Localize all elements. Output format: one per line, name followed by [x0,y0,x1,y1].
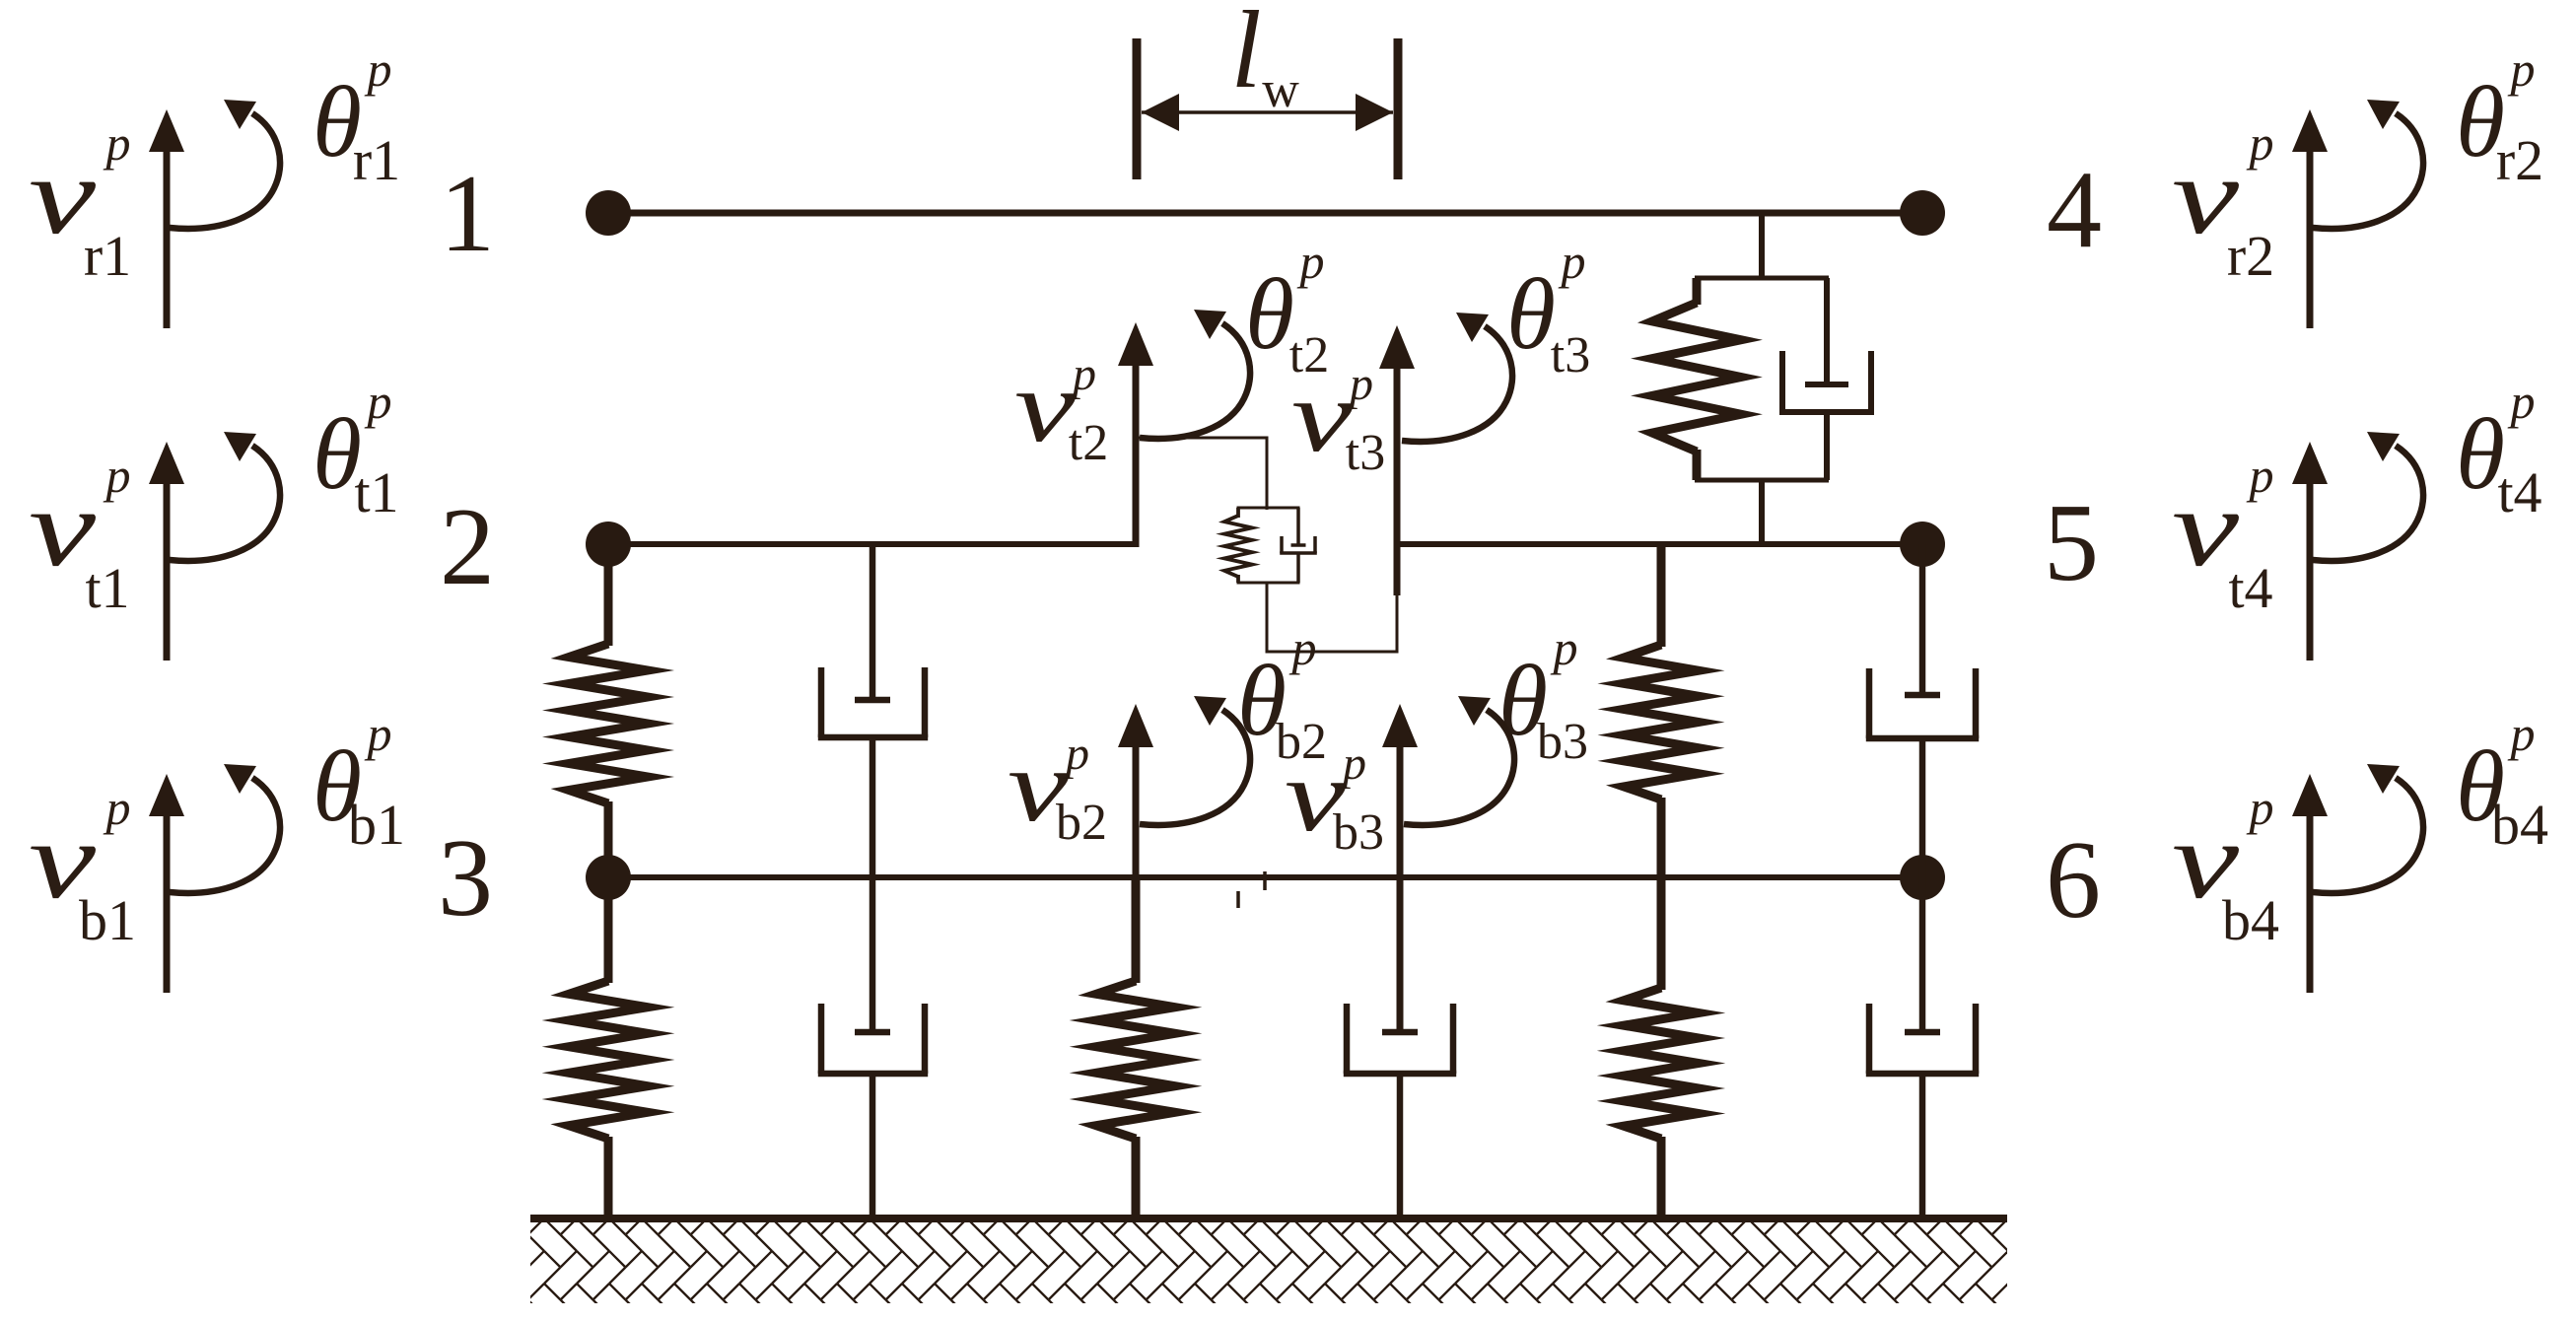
CA-mortar spring left (node2-node3) [569,544,648,877]
label v_t1 [29,448,131,620]
svg-text:w: w [1262,62,1299,118]
translation arrow v_t4 [2292,442,2328,661]
svg-text:p: p [2508,41,2536,97]
svg-text:p: p [2247,115,2274,171]
railpad bottom bracket [1695,478,1829,483]
svg-text:v: v [1014,350,1077,463]
svg-text:2: 2 [440,486,495,608]
svg-text:b3: b3 [1537,714,1588,770]
label v_t3 [1291,358,1385,481]
label v_t2 [1014,348,1108,471]
label theta_b1 [313,706,405,857]
subgrade spring mid (below b2) [1096,877,1175,1218]
rotation arc theta_r1 [170,100,280,229]
label theta_t4 [2456,374,2542,524]
railpad connector stub top [1759,213,1765,280]
label theta_b4 [2456,706,2548,857]
node label 5 [2044,482,2099,604]
translation arrow v_r2 [2292,109,2328,328]
svg-text:3: 3 [438,817,493,939]
svg-text:l: l [1230,0,1261,111]
track slab left segment (node 2 - joint t2) [608,541,1139,547]
label theta_b2 [1237,620,1327,770]
base joint mark lower [1236,891,1240,908]
svg-text:r1: r1 [353,128,400,192]
svg-text:b3: b3 [1333,804,1384,861]
svg-text:p: p [2247,780,2274,835]
svg-text:b2: b2 [1056,795,1107,851]
base slab beam (node 3 - node 6) [608,874,1922,880]
arrow stem v_t3 (joint right post) [1379,325,1415,595]
svg-text:v: v [1291,360,1354,473]
joint spring [1224,508,1252,583]
label v_b2 [1008,728,1107,851]
joint top bracket [1237,507,1300,510]
joint damper [1280,508,1317,583]
label theta_t1 [313,374,399,524]
dimension extension bar left [1133,38,1142,179]
node 6 [1900,855,1945,900]
node label 3 [438,817,493,939]
node 5 [1900,522,1945,567]
rotation arc theta_t2 [1140,310,1250,439]
dimension arrow line l_w [1142,94,1393,131]
label v_b1 [29,780,136,952]
svg-text:p: p [1070,348,1096,400]
svg-text:p: p [365,706,392,761]
svg-text:p: p [104,115,131,171]
CA-mortar spring right (slab-node6) [1624,544,1699,877]
arrow stem v_b3 [1382,704,1418,1032]
translation arrow v_b1 [149,774,184,993]
rotation arc theta_b1 [170,764,280,893]
subgrade damper left (node3-ground) [818,877,928,1218]
railpad top bracket [1695,276,1829,281]
joint wire from t2 stem [1136,438,1267,510]
svg-text:θ: θ [1506,258,1556,371]
svg-text:r2: r2 [2227,224,2274,288]
svg-text:t1: t1 [354,460,398,524]
svg-text:p: p [1063,728,1089,780]
label v_b4 [2172,780,2279,952]
translation arrow v_r1 [149,109,184,328]
ground surface line [530,1215,2007,1222]
label v_r2 [2172,115,2274,288]
CA-mortar damper left (node2-node3) [818,544,928,877]
svg-text:p: p [104,448,131,503]
label theta_b3 [1498,620,1588,770]
node label 2 [440,486,495,608]
svg-text:p: p [1340,737,1366,790]
node label 1 [440,153,495,275]
node 2 [586,522,631,567]
translation arrow v_t1 [149,442,184,661]
subgrade spring left (node3-ground) [569,877,648,1218]
label theta_r1 [313,41,400,192]
svg-text:p: p [1289,620,1317,675]
svg-text:t2: t2 [1069,415,1108,471]
dimension extension bar right [1394,38,1403,179]
railpad connector stub bottom [1759,480,1765,544]
label l_w [1230,0,1299,118]
label theta_t3 [1506,234,1590,383]
svg-text:b4: b4 [2222,888,2279,952]
svg-text:r1: r1 [84,224,131,288]
subgrade damper mid (below b3) [1344,877,1456,1218]
subgrade spring right (node6-ground) [1624,877,1699,1218]
joint wire to t3 stem [1267,583,1397,652]
svg-text:p: p [1559,234,1586,289]
label v_b3 [1285,737,1384,861]
rotation arc theta_t3 [1402,313,1512,442]
label theta_r2 [2456,41,2543,192]
node label 6 [2046,819,2101,941]
rotation arc theta_r2 [2313,100,2423,229]
svg-text:t4: t4 [2228,556,2272,620]
rotation arc theta_t1 [170,432,280,561]
railpad spring [1652,278,1741,480]
node 1 [586,190,631,236]
svg-text:p: p [2508,374,2536,429]
track slab right segment (joint t3 - node 5) [1394,541,1922,547]
svg-text:t3: t3 [1551,327,1590,383]
svg-text:p: p [365,374,392,429]
svg-text:p: p [1297,234,1325,289]
node 4 [1900,190,1945,236]
svg-text:t1: t1 [85,556,129,620]
svg-text:b4: b4 [2491,793,2548,857]
subgrade damper right (node6-ground) [1866,877,1979,1218]
railpad damper [1779,278,1874,480]
base joint mark upper [1263,871,1267,890]
svg-text:p: p [365,41,392,97]
svg-text:t3: t3 [1346,425,1385,481]
svg-text:θ: θ [1245,258,1294,371]
joint bottom bracket [1237,582,1300,585]
svg-text:6: 6 [2046,819,2101,941]
rotation arc theta_b3 [1404,696,1514,825]
arrow stem v_b2 [1118,704,1153,983]
label theta_t2 [1245,234,1329,383]
svg-text:p: p [1347,358,1373,410]
ground hatch (subgrade) [479,1186,2057,1322]
svg-text:5: 5 [2044,482,2099,604]
svg-text:p: p [2247,448,2274,503]
node 3 [586,855,631,900]
rotation arc theta_t4 [2313,432,2423,561]
rotation arc theta_b2 [1140,696,1250,825]
svg-text:4: 4 [2047,149,2102,271]
label v_r1 [29,115,131,288]
svg-text:p: p [104,780,131,835]
svg-text:b1: b1 [79,888,136,952]
CA-mortar damper right (node5-node6) [1866,544,1979,877]
svg-text:t4: t4 [2497,460,2541,524]
rail beam (node 1 - node 4) [608,210,1922,217]
translation arrow v_b4 [2292,774,2328,993]
svg-text:p: p [1551,620,1578,675]
svg-text:b1: b1 [348,793,405,857]
svg-text:p: p [2508,706,2536,761]
rotation arc theta_b4 [2313,764,2423,893]
svg-text:1: 1 [440,153,495,275]
arrow stem v_t2 (joint left post) [1118,322,1153,547]
label v_t4 [2172,448,2274,620]
node label 4 [2047,149,2102,271]
svg-text:r2: r2 [2496,128,2543,192]
